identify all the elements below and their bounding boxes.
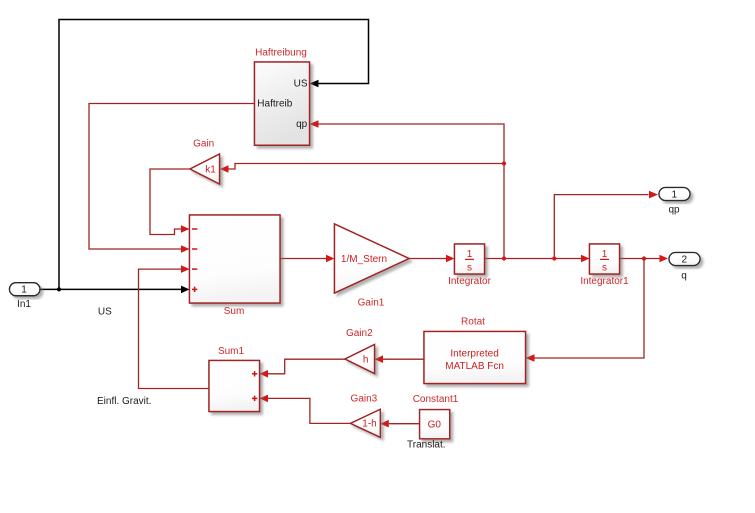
arrowhead into Sum + input (black) [181, 286, 190, 294]
svg-text:1: 1 [467, 249, 473, 260]
junction dot at Integrator output [502, 256, 506, 260]
wire: branch to Gain k1 input [229, 164, 505, 170]
block: Gain1 (right pointing triangle) [335, 224, 410, 293]
svg-text:k1: k1 [205, 164, 216, 175]
wire: Rotat output to Gain2 input [383, 358, 424, 360]
arrowhead into qp outport [649, 191, 658, 199]
junction dot qp branch [552, 256, 556, 260]
wire: branch down from Integrator1 output to Rotat input [534, 259, 644, 359]
svg-text:1: 1 [602, 249, 608, 260]
port: q outport [669, 253, 700, 266]
block: Sum1 (flipped, inputs right) [209, 361, 260, 412]
svg-text:s: s [602, 262, 607, 273]
svg-text:Integrator: Integrator [448, 276, 491, 287]
svg-text:Rotat: Rotat [461, 317, 485, 328]
wire: Haftreib output to Sum 2nd input [89, 104, 255, 250]
block: Integrator [455, 244, 485, 274]
svg-text:Gain: Gain [193, 139, 214, 150]
svg-text:2: 2 [682, 255, 688, 266]
wire: Integrator output to Integrator1 with branches [485, 258, 582, 260]
svg-text:Constant1: Constant1 [413, 394, 459, 405]
svg-text:Haftreibung: Haftreibung [255, 48, 307, 59]
wire: Gain3 output to Sum1 2nd input [268, 398, 351, 423]
svg-text:Translat.: Translat. [407, 440, 446, 451]
svg-text:Gain1: Gain1 [358, 298, 385, 309]
svg-text:q: q [681, 271, 687, 282]
block: Rotat (Interpreted MATLAB Fcn) [424, 332, 526, 384]
arrowhead into Gain3 [380, 420, 389, 428]
wire: black feedback loop from In1 branch up and around to US port [59, 20, 369, 290]
wire: Integrator1 output to q outport [620, 258, 660, 260]
arrowhead into US port (black) [310, 80, 319, 88]
arrowhead into Sum 3rd input [181, 265, 190, 273]
port: In1 inport [10, 283, 40, 296]
svg-text:US: US [294, 79, 308, 90]
block: Constant1 [420, 410, 450, 439]
svg-text:Sum1: Sum1 [218, 346, 245, 357]
arrowhead into qp port of Haftreibung [310, 120, 319, 128]
block: Gain2 (left pointing triangle) [345, 345, 375, 374]
wire: Sum output to Gain1 [280, 258, 326, 260]
svg-text:Gain3: Gain3 [351, 394, 378, 405]
svg-text:h: h [363, 355, 369, 366]
arrowhead into Sum 2nd input [181, 245, 190, 253]
port: qp outport [659, 188, 690, 201]
svg-text:Haftreib: Haftreib [257, 99, 292, 110]
arrowhead into Gain k1 [220, 165, 229, 173]
arrowhead into Integrator [446, 255, 455, 263]
block: Sum [190, 215, 281, 303]
arrowhead into Gain1 [326, 255, 335, 263]
arrowhead into Sum1 1st input [260, 370, 269, 378]
svg-text:G0: G0 [428, 419, 442, 430]
arrowhead into Sum 1st input [181, 225, 190, 233]
block: Integrator1 [590, 244, 620, 274]
junction dot near In1 (black) [57, 287, 61, 291]
wire: In1 to Sum + input (black) [40, 288, 181, 290]
svg-text:Sum: Sum [224, 306, 245, 317]
junction dot at Integrator1 output branch [642, 256, 646, 260]
svg-text:Interpreted: Interpreted [450, 348, 498, 359]
junction dot on k1 branch [502, 161, 506, 165]
wire: branch up from Integrator output to qp input of Haftreibung and k1 [318, 124, 504, 259]
wire: Constant1 output to Gain3 input [389, 423, 420, 425]
wire: branch up to qp outport [554, 195, 648, 259]
svg-text:MATLAB Fcn: MATLAB Fcn [445, 361, 504, 372]
svg-text:1: 1 [21, 285, 27, 296]
svg-text:Integrator1: Integrator1 [580, 276, 629, 287]
block: subsystem Haftreibung [255, 62, 310, 145]
svg-text:qp: qp [296, 119, 308, 130]
svg-text:qp: qp [668, 205, 680, 216]
arrowhead into Sum1 2nd input [260, 395, 269, 403]
block: Gain3 (left pointing triangle) [351, 409, 381, 437]
wire: Gain k1 output down to Sum 1st input [150, 169, 190, 235]
arrowhead into Rotat right side [526, 354, 535, 362]
svg-text:1/M_Stern: 1/M_Stern [341, 254, 387, 265]
wire: Sum1 output left and up to Sum 3rd input [139, 269, 210, 388]
svg-text:Gain2: Gain2 [346, 328, 373, 339]
wire: Gain1 output to Integrator [409, 258, 446, 260]
svg-text:1-h: 1-h [362, 419, 376, 430]
arrowhead into Integrator1 [581, 255, 590, 263]
svg-text:1: 1 [672, 190, 678, 201]
arrowhead into q outport [660, 255, 669, 263]
arrowhead into Gain2 [375, 355, 384, 363]
svg-text:Einfl. Gravit.: Einfl. Gravit. [97, 396, 151, 407]
block: Gain k1 (left pointing triangle) [190, 154, 220, 184]
wire: Gain2 output to Sum1 1st input [268, 359, 345, 374]
svg-text:In1: In1 [17, 299, 31, 310]
svg-text:s: s [467, 262, 472, 273]
svg-text:US: US [98, 307, 112, 318]
